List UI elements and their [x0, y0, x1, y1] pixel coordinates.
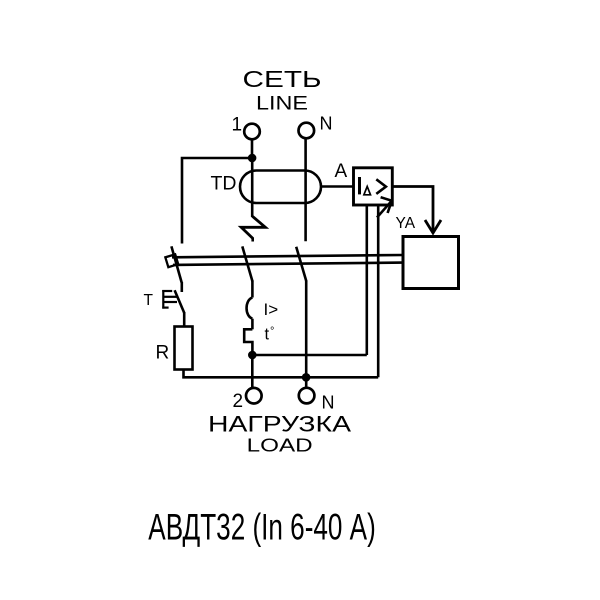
test button blade — [175, 290, 185, 313]
wire left blade down — [181, 282, 184, 292]
terminal N bottom — [299, 388, 315, 404]
transformer TD — [240, 171, 321, 204]
resistor R — [175, 327, 193, 370]
terminal N top — [299, 123, 315, 139]
wire flash to contact stub — [251, 238, 254, 242]
wire blade to resistor — [183, 312, 186, 327]
wire phase down through TD — [251, 158, 254, 217]
svg-text:YA: YA — [396, 215, 416, 232]
detector supply wire 1 — [365, 204, 368, 355]
trip bar bottom line — [173, 263, 403, 265]
arrowhead into YA — [425, 220, 441, 233]
wire junction to left branch — [182, 158, 252, 244]
wire detector to YA arrow — [391, 187, 433, 232]
svg-text:A: A — [335, 161, 348, 182]
wire N lower — [305, 281, 308, 389]
pole contact blade left — [171, 246, 181, 283]
svg-text:1: 1 — [232, 115, 243, 136]
wire N down through TD — [304, 138, 307, 241]
svg-text:R: R — [156, 343, 170, 364]
svg-text:N: N — [320, 113, 333, 133]
terminal 2 — [246, 388, 262, 404]
pole contact blade N — [296, 247, 306, 282]
svg-text:НАГРУЗКА: НАГРУЗКА — [208, 411, 352, 436]
svg-text:2: 2 — [233, 391, 244, 412]
trip bar top line — [172, 255, 403, 257]
svg-text:АВДТ32 (In 6-40 А): АВДТ32 (In 6-40 А) — [148, 507, 375, 548]
svg-text:LOAD: LOAD — [247, 436, 313, 456]
magnetic release coil I> — [247, 298, 253, 319]
svg-text:TD: TD — [211, 172, 237, 194]
node N junction dot — [302, 373, 311, 382]
actuation arrow from detector — [377, 197, 392, 217]
svg-text:N: N — [322, 392, 335, 412]
thermal release step t° — [244, 329, 252, 355]
detector supply wire 2 — [377, 204, 380, 377]
svg-text:t: t — [265, 326, 270, 344]
wire terminal1 to junction — [251, 139, 254, 158]
wire phase blade to coil — [251, 281, 254, 298]
node phase junction dot — [248, 351, 257, 360]
svg-text:LINE: LINE — [256, 93, 308, 114]
svg-text:°: ° — [270, 326, 274, 338]
wire TD output to detector — [321, 185, 354, 188]
test button T symbol — [162, 290, 177, 309]
detector box IΔ> — [354, 168, 393, 205]
trip bar handle square — [165, 254, 178, 267]
solenoid YA box — [403, 237, 459, 289]
wire resistor down to test line — [184, 370, 379, 378]
detector > symbol — [376, 179, 386, 194]
svg-text:СЕТЬ: СЕТЬ — [243, 66, 322, 92]
detector I bar — [358, 177, 361, 194]
svg-text:T: T — [144, 292, 154, 309]
wire phase tap to detector supply 1 — [252, 354, 366, 357]
flash trip symbol on phase — [241, 216, 265, 238]
svg-text:I>: I> — [264, 300, 279, 319]
detector Δ subscript — [364, 186, 371, 194]
terminal 1 — [244, 124, 260, 140]
pole contact blade phase — [242, 246, 252, 281]
wire phase down to terminal 2 — [251, 355, 254, 388]
node junction dot top — [248, 154, 257, 163]
wire coil to thermal — [251, 319, 254, 330]
